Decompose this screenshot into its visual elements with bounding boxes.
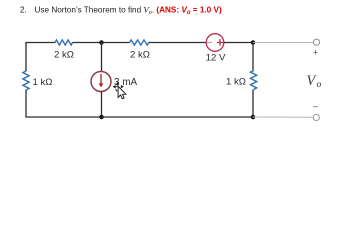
- junction node N3 (bottom middle): [99, 115, 104, 120]
- voltage source V1 12 V: [206, 34, 224, 52]
- terminal minus (open circle): [313, 114, 319, 120]
- svg-text:Use Norton’s Theorem to find V: Use Norton’s Theorem to find Vo. (ANS: V…: [35, 5, 222, 17]
- wire top segment (V1 to node N2): [224, 42, 253, 44]
- svg-text:2 kΩ: 2 kΩ: [54, 50, 74, 61]
- wire left branch lower (R3 to bottom corner): [26, 90, 102, 117]
- wire top segment (R1 to node N1): [73, 42, 102, 44]
- svg-text:+: +: [313, 48, 319, 59]
- wire bottom segment (N3 to N4): [102, 116, 254, 118]
- junction node N4 (bottom right): [251, 115, 256, 120]
- svg-text:1 kΩ: 1 kΩ: [33, 77, 53, 88]
- junction node N2 (top right): [251, 40, 256, 45]
- resistor R1 2 kOhm (top left, horizontal): [55, 40, 73, 45]
- wire to output terminal minus (gray): [253, 116, 314, 118]
- current source I1 3 mA: [91, 72, 111, 92]
- svg-text:12 V: 12 V: [206, 52, 226, 63]
- wire to output terminal plus (gray): [253, 42, 314, 44]
- wire top segment (R2 to V1): [149, 42, 206, 44]
- wire middle upper (N1 to I1): [101, 43, 103, 72]
- wire right branch upper (N2 to R4): [252, 43, 254, 71]
- wire left branch upper (corner to R3): [25, 43, 27, 72]
- mouse cursor overlay (move cursor + pointer): [113, 82, 126, 99]
- terminal plus (open circle): [313, 39, 319, 45]
- svg-text:1 kΩ: 1 kΩ: [226, 76, 246, 87]
- resistor R3 1 kOhm (left, vertical): [23, 71, 29, 90]
- wire middle lower (I1 to N3): [101, 92, 103, 117]
- svg-text:2.: 2.: [20, 6, 27, 15]
- svg-text:−: −: [313, 102, 319, 113]
- svg-text:2 kΩ: 2 kΩ: [130, 50, 150, 61]
- wire top-left segment (corner to R1): [26, 42, 55, 45]
- wire right branch lower (R4 to N4): [252, 90, 254, 118]
- wire top segment (N1 to R2): [102, 42, 130, 44]
- resistor R2 2 kOhm (top middle, horizontal): [130, 40, 149, 45]
- junction node N1 (top middle): [99, 40, 104, 45]
- resistor R4 1 kOhm (right, vertical): [251, 71, 257, 90]
